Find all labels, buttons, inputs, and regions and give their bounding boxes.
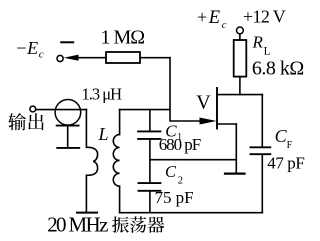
svg-text:−E: −E [15, 38, 38, 58]
svg-text:20 MHz: 20 MHz [47, 213, 108, 237]
svg-text:F: F [287, 140, 293, 151]
svg-text:L: L [98, 124, 109, 144]
svg-text:c: c [222, 20, 227, 31]
svg-text:+12 V: +12 V [243, 7, 286, 27]
svg-text:1 MΩ: 1 MΩ [101, 27, 146, 49]
svg-text:V: V [196, 91, 211, 113]
svg-text:680 pF: 680 pF [159, 135, 202, 154]
svg-text:E: E [208, 8, 220, 28]
svg-text:2: 2 [178, 176, 183, 187]
svg-text:c: c [39, 49, 44, 61]
svg-text:47 pF: 47 pF [267, 154, 305, 173]
svg-text:1.3 μH: 1.3 μH [82, 84, 123, 103]
svg-text:+: + [197, 7, 207, 27]
svg-text:R: R [252, 32, 264, 51]
svg-text:L: L [264, 46, 271, 58]
svg-text:75 pF: 75 pF [155, 188, 194, 207]
svg-text:C: C [165, 162, 177, 181]
svg-text:6.8 kΩ: 6.8 kΩ [252, 58, 304, 80]
